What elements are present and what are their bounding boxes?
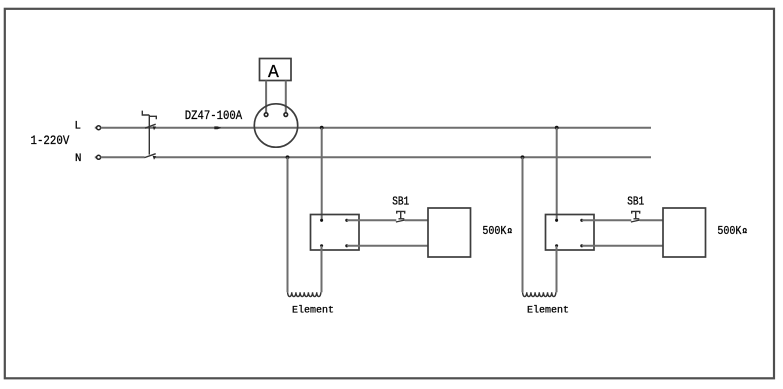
svg-text:Ω: Ω <box>508 228 513 236</box>
wire relay2 bottom to controller 2 <box>582 245 663 247</box>
heating element 2 (coil) <box>523 292 556 296</box>
wire N bus <box>101 156 145 158</box>
svg-text:Element: Element <box>527 304 569 316</box>
switch QS double-pole (DZ47-100A breaker) <box>142 111 156 160</box>
wire relay1 to SB1 <box>347 219 397 221</box>
relay K1 (control box) <box>311 215 360 251</box>
svg-text:Element: Element <box>292 304 334 316</box>
pushbutton SB1 (1) <box>396 211 405 222</box>
svg-text:A: A <box>268 63 279 83</box>
svg-text:L: L <box>75 120 81 132</box>
wire relay1 bottom to controller 1 <box>347 245 428 247</box>
terminal N <box>95 155 101 159</box>
svg-text:N: N <box>75 153 81 165</box>
wire SB1 to controller 2 <box>640 219 663 221</box>
node junction on N bus 2 <box>521 155 525 159</box>
controller box 1 <box>428 208 471 257</box>
svg-text:500K: 500K <box>717 224 742 238</box>
ammeter A (meter box) <box>260 59 292 84</box>
node junction on L bus 1 <box>320 126 324 130</box>
relay K2 (control box) <box>546 215 595 251</box>
wire L drop to relay 2 <box>556 128 558 221</box>
wire direction arrow on L bus <box>214 126 221 129</box>
node junction on N bus 1 <box>286 155 290 159</box>
current transformer TA (circle on L bus) <box>254 104 297 147</box>
label 500K ohm (2) <box>717 224 747 238</box>
svg-text:Ω: Ω <box>743 228 748 236</box>
wire L drop to relay 1 <box>321 128 323 221</box>
svg-text:SB1: SB1 <box>392 196 409 209</box>
label 500K ohm (1) <box>482 224 512 238</box>
wire relay1 to element 1 <box>321 246 323 292</box>
wire L bus <box>101 127 651 129</box>
terminal L <box>95 126 101 130</box>
svg-text:500K: 500K <box>482 224 507 238</box>
svg-text:SB1: SB1 <box>627 196 644 209</box>
node junction on L bus 2 <box>555 126 559 130</box>
pushbutton SB1 (2) <box>631 211 640 222</box>
controller box 2 <box>663 208 706 257</box>
wire relay2 to element 2 <box>556 246 558 292</box>
wire element 2 to N bus <box>522 157 524 292</box>
wire element 1 to N bus <box>287 157 289 292</box>
svg-text:1-220V: 1-220V <box>31 133 70 148</box>
wire SB1 to controller 1 <box>405 219 428 221</box>
heating element 1 (coil) <box>288 292 321 296</box>
wire relay2 to SB1 <box>582 219 632 221</box>
svg-text:DZ47-100A: DZ47-100A <box>185 108 243 123</box>
wire ammeter leads <box>266 81 286 113</box>
